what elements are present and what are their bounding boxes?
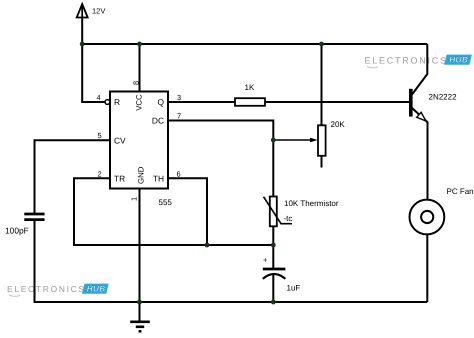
wire thermistor bottom to node: [272, 226, 274, 268]
svg-text:7: 7: [177, 112, 181, 121]
svg-text:HUB: HUB: [449, 55, 468, 65]
svg-text:8: 8: [131, 81, 140, 85]
op-amp U1 555 timer body: [105, 92, 172, 208]
svg-text:-tc: -tc: [284, 214, 293, 223]
wire 12V vertical to rail and R pin: [82, 18, 105, 102]
svg-text:TR: TR: [114, 174, 125, 184]
node pot top tap: [319, 42, 324, 47]
svg-text:1: 1: [129, 197, 138, 201]
svg-text:+: +: [263, 256, 268, 265]
capacitor 1uF polarized: [263, 256, 301, 293]
wire CV pin 5 to 100pF: [35, 140, 111, 213]
node wiper junction: [271, 138, 276, 143]
wire DC pin 7 to wiper junction and thermistor: [168, 121, 273, 197]
svg-text:DC: DC: [152, 116, 164, 126]
svg-text:5: 5: [98, 131, 102, 140]
svg-text:10K Thermistor: 10K Thermistor: [284, 199, 339, 208]
node thermistor bottom: [271, 243, 276, 248]
svg-text:3: 3: [177, 93, 181, 102]
node 1uF bottom: [271, 300, 276, 305]
svg-text:ELECTRONICS: ELECTRONICS: [365, 56, 448, 66]
logo Electronics HUB top right: [365, 55, 472, 68]
wire Q output to transistor base: [168, 101, 409, 103]
wire fan bottom to rail: [426, 235, 428, 302]
motor M1 PC Fan: [410, 187, 474, 234]
wire GND pin 1 drop: [139, 189, 141, 303]
thermistor 10K: [264, 197, 339, 227]
wire TR pin 2 loop: [74, 178, 273, 245]
power 12V supply arrow: [77, 4, 106, 18]
svg-text:ELECTRONICS: ELECTRONICS: [7, 284, 86, 294]
wire 20K pot vertical: [321, 44, 323, 168]
node ground rail: [137, 300, 142, 305]
wire emitter to fan: [427, 122, 429, 200]
transistor Q1 2N2222: [411, 89, 457, 123]
wire 100pF bottom to ground rail: [35, 220, 428, 302]
wire top 12V rail: [82, 43, 427, 45]
svg-text:PC Fan: PC Fan: [447, 187, 474, 196]
ground symbol: [130, 302, 150, 331]
svg-text:4: 4: [97, 93, 101, 102]
svg-text:12V: 12V: [92, 6, 105, 15]
svg-text:GND: GND: [136, 166, 145, 184]
node VCC tap: [137, 42, 142, 47]
svg-text:1uF: 1uF: [287, 284, 301, 293]
wire collector riser: [412, 44, 427, 95]
capacitor 100pF: [5, 214, 45, 236]
svg-text:6: 6: [177, 169, 181, 178]
svg-text:555: 555: [159, 198, 173, 207]
svg-text:CV: CV: [114, 135, 126, 145]
svg-text:2N2222: 2N2222: [429, 93, 458, 102]
svg-text:100pF: 100pF: [5, 226, 29, 236]
svg-text:HUB: HUB: [87, 285, 106, 294]
svg-text:Q: Q: [157, 97, 164, 107]
svg-text:2: 2: [98, 169, 102, 178]
resistor 1K: [235, 83, 265, 106]
svg-text:VCC: VCC: [135, 94, 144, 111]
svg-text:TH: TH: [153, 174, 164, 184]
svg-text:R: R: [114, 97, 120, 107]
wire 1uF bottom to rail: [272, 275, 274, 302]
node TH junction: [205, 243, 210, 248]
svg-text:1K: 1K: [245, 83, 255, 92]
wire VCC pin 8 drop: [139, 44, 141, 92]
logo Electronics HUB bottom left: [7, 284, 109, 297]
potentiometer 20K: [273, 120, 345, 156]
node 12V at vertical: [80, 42, 85, 47]
wire TH pin 6 loop: [168, 178, 207, 245]
svg-text:20K: 20K: [331, 120, 346, 129]
